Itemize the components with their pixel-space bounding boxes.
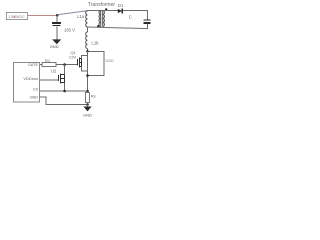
node gate junction dot [63,63,66,66]
wire output right vertical upper [146,11,148,21]
svg-text:Q1: Q1 [71,50,76,55]
svg-text:VDDsns: VDDsns [23,76,38,81]
wire U2 source to sense line [64,83,66,91]
svg-text:L1a: L1a [77,14,85,19]
inductor L1a magnetizing winding [86,11,88,27]
wire CS sense line [40,90,88,92]
svg-text:1.5KVDC: 1.5KVDC [8,14,25,19]
wire R1 to Q1 gate [56,64,77,66]
capacitor C output [144,20,151,23]
wire secondary top to diode [103,10,118,12]
ground arrow bottom [87,105,89,108]
node drain junction dot [86,50,89,53]
svg-text:GND: GND [83,112,92,117]
wire bottom rail secondary return [88,27,148,29]
svg-text:GATE: GATE [28,63,39,67]
diode D1 [118,9,122,13]
wire input box to junction (pink) [28,15,58,17]
node A junction dot input [56,14,59,17]
node sense junction dot [86,90,89,93]
phasing dot primary [97,25,99,27]
wire IC gate pin to R1 [40,64,43,66]
node ground rail junction dot [86,103,89,106]
node source junction dot [86,74,89,77]
op-amp U1 controller IC box [14,63,40,103]
wire IC pin2 to U2 gate [40,79,59,81]
svg-text:R1: R1 [45,58,51,63]
svg-text:Rs: Rs [91,93,96,98]
wire transformer top rail [87,10,103,12]
wire cap to ground [56,27,58,42]
node U2 source dot [63,90,66,93]
wire L1b to drain node [87,49,89,52]
svg-text:D1: D1 [118,3,124,8]
wire IC GND pin to bottom rail [40,97,88,105]
snubber loop wires [88,52,105,76]
transistor Q1 MOSFET [78,58,82,68]
wire main vertical drain-source-sense [87,52,89,93]
svg-text:U2: U2 [51,68,57,73]
capacitor C1 bulk input cap [52,23,61,26]
transistor U2 MOSFET driver [59,74,65,84]
svg-text:100Ω: 100Ω [105,59,114,63]
svg-text:L1b: L1b [92,40,100,45]
wire output right vertical lower [146,24,148,29]
wire junction to transformer top (slight diagonal, blue-gray) [57,11,87,15]
svg-text:Transformer: Transformer [88,2,115,8]
svg-text:CS: CS [33,88,39,92]
svg-text:165 V: 165 V [64,28,75,33]
inductor L1b leakage winding [87,27,89,32]
svg-text:GND: GND [30,95,39,99]
wire Q1 drain [82,55,88,58]
transformer primary winding [99,11,101,27]
svg-text:C2M: C2M [69,55,76,59]
resistor Rs sense [86,93,90,103]
transformer secondary winding [103,11,105,27]
node VIN input source box [7,13,28,20]
resistor R1 gate [42,63,56,67]
wire Q1 source [82,66,88,71]
wire diode to output corner [123,10,148,12]
phasing dot secondary [105,8,107,10]
wire junction down to bulk capacitor [56,16,58,23]
ground arrow input side [52,39,61,44]
svg-text:GND: GND [50,44,59,49]
wire U2 drain to gate node [64,65,66,75]
svg-text:C: C [129,15,132,20]
